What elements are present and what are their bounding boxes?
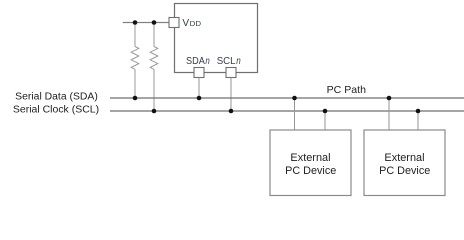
junction dot (SCLn wire / SCL bus) bbox=[229, 109, 234, 114]
pin SDAn (square pad on bottom edge of U1) bbox=[194, 68, 204, 78]
resistor R1 pull-up (SDA) bbox=[131, 23, 139, 99]
svg-text:PC Device: PC Device bbox=[285, 165, 336, 177]
IC box U1 (MCU outline) bbox=[175, 4, 258, 73]
junction dot (R2 / VDD rail) bbox=[152, 20, 157, 25]
wire device2 SCL tap bbox=[417, 111, 419, 130]
svg-text:V: V bbox=[182, 18, 189, 29]
device box External I2C Device 1 bbox=[270, 130, 351, 196]
device box External I2C Device 2 bbox=[364, 130, 445, 196]
svg-text:Serial Clock (SCL): Serial Clock (SCL) bbox=[13, 104, 99, 115]
wire SDAn pin to SDA bus bbox=[198, 78, 200, 99]
svg-text:n: n bbox=[236, 56, 241, 67]
svg-text:n: n bbox=[205, 56, 209, 67]
wire VDD rail bbox=[123, 22, 169, 24]
bus line SCL bbox=[110, 110, 464, 112]
svg-text:DD: DD bbox=[190, 19, 202, 28]
svg-text:Serial Data (SDA): Serial Data (SDA) bbox=[15, 92, 98, 103]
junction dot (device2 / SDA bus) bbox=[387, 96, 392, 101]
resistor R2 pull-up (SCL) bbox=[150, 23, 158, 112]
svg-text:External: External bbox=[384, 152, 424, 164]
svg-text:PC Device: PC Device bbox=[379, 165, 430, 177]
wire device2 SDA tap bbox=[388, 98, 390, 130]
junction dot (R2 / SCL bus) bbox=[152, 109, 157, 114]
bus line SDA bbox=[110, 97, 464, 99]
svg-text:PC Path: PC Path bbox=[327, 85, 366, 96]
wire SCLn pin to SCL bus bbox=[230, 78, 232, 112]
junction dot (device1 / SCL bus) bbox=[323, 109, 328, 114]
pin VDD (square pad on left edge of U1) bbox=[169, 18, 179, 28]
wire device1 SCL tap bbox=[324, 111, 326, 130]
svg-text:SDA: SDA bbox=[186, 56, 205, 67]
junction dot (device2 / SCL bus) bbox=[416, 109, 421, 114]
junction dot (device1 / SDA bus) bbox=[292, 96, 297, 101]
junction dot (SDAn wire / SDA bus) bbox=[197, 96, 202, 101]
svg-text:External: External bbox=[290, 152, 330, 164]
junction dot (R1 / SDA bus) bbox=[133, 96, 138, 101]
junction dot (R1 / VDD rail) bbox=[133, 20, 138, 25]
wire device1 SDA tap bbox=[294, 98, 296, 130]
pin SCLn (square pad on bottom edge of U1) bbox=[226, 68, 236, 78]
svg-text:SCL: SCL bbox=[217, 56, 236, 67]
